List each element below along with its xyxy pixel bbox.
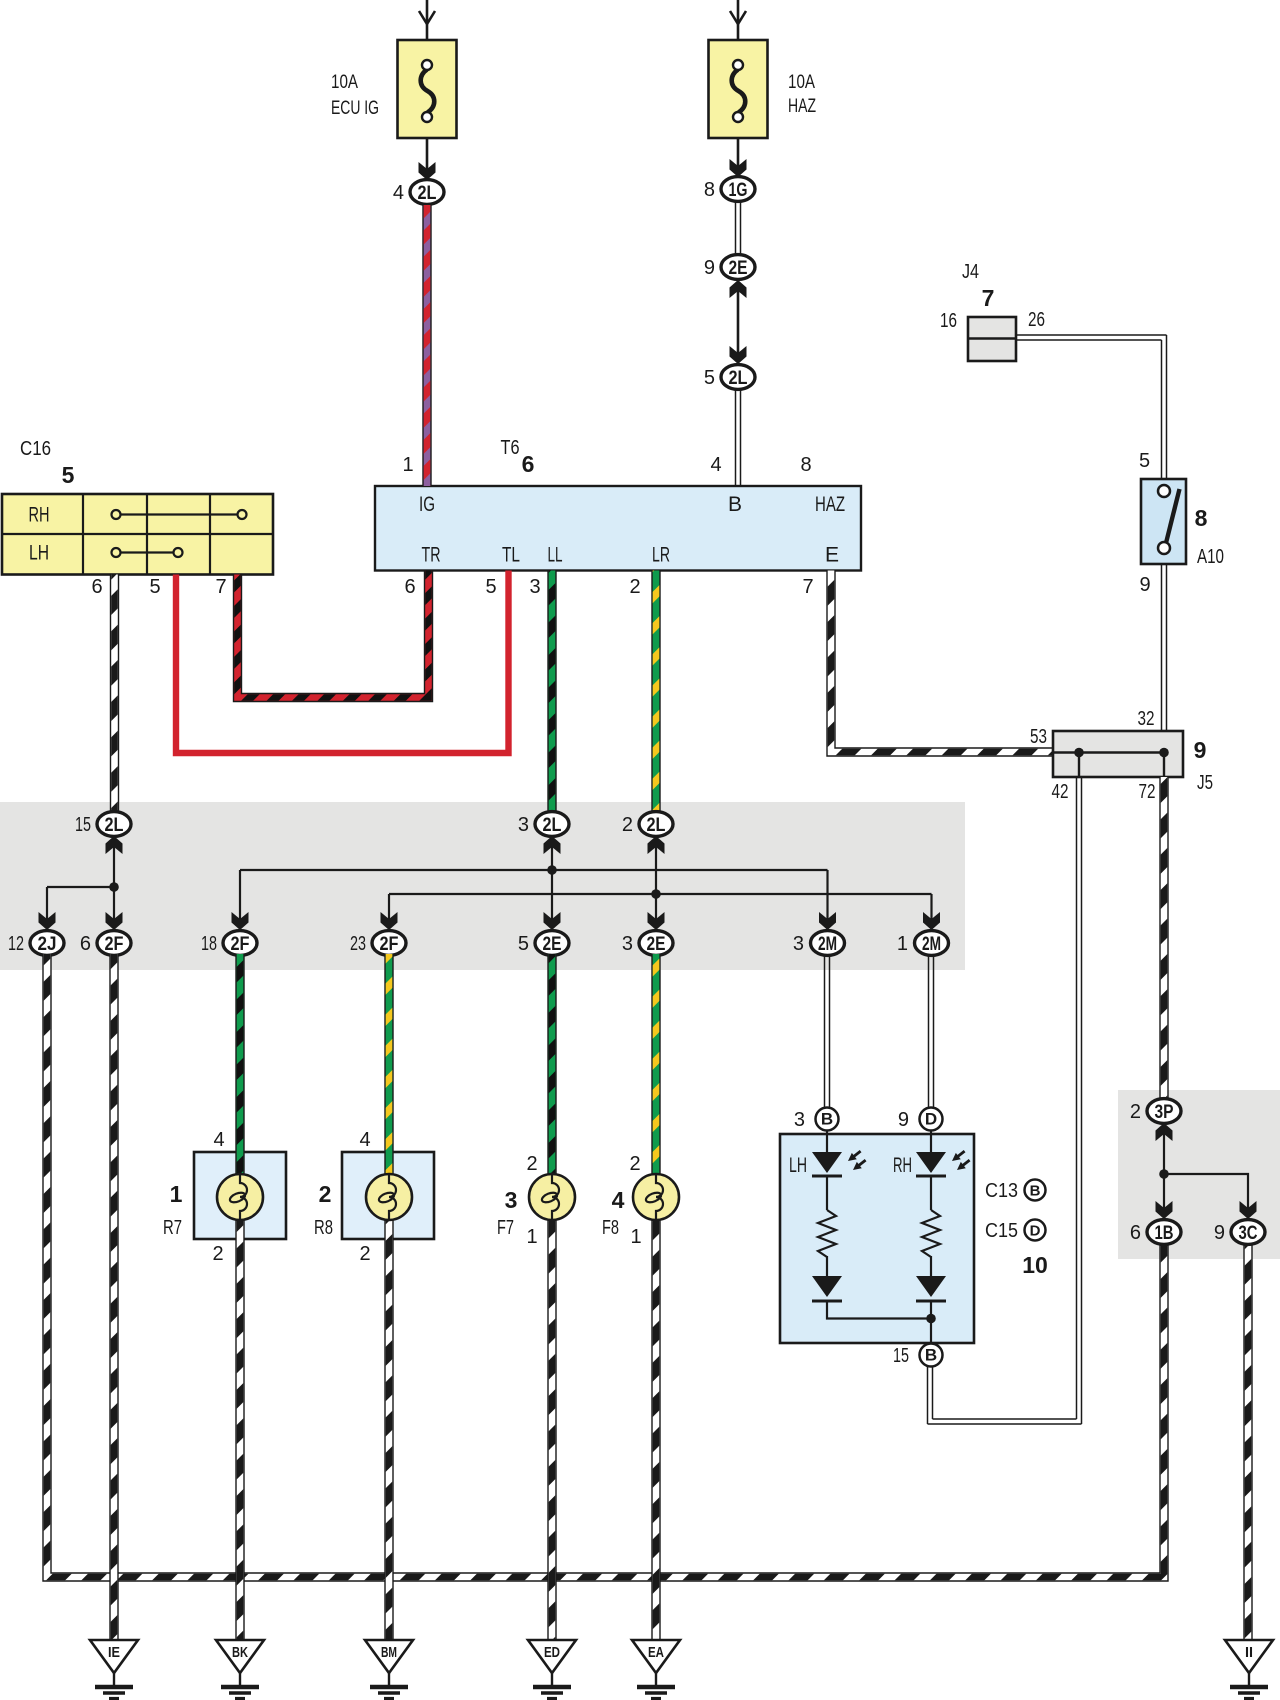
connector oval 3C (pin 9) xyxy=(1231,1220,1265,1245)
arrow into 1G pin 8 xyxy=(730,159,747,177)
svg-text:2: 2 xyxy=(629,576,640,598)
svg-text:RH: RH xyxy=(29,504,50,527)
svg-text:2L: 2L xyxy=(105,815,124,836)
svg-text:B: B xyxy=(728,493,742,516)
arrow up into 2L pin2 xyxy=(648,836,665,854)
svg-text:7: 7 xyxy=(982,285,995,311)
svg-text:IG: IG xyxy=(419,493,435,516)
diode RH xyxy=(916,1276,946,1301)
wire black-white: lamp F8 to ground EA xyxy=(651,1220,660,1640)
svg-text:3: 3 xyxy=(622,933,633,955)
svg-text:5: 5 xyxy=(518,933,529,955)
svg-text:J4: J4 xyxy=(962,261,979,283)
bulb F8 xyxy=(633,1174,679,1220)
wire diode LH to node B15 xyxy=(827,1301,931,1319)
connector oval 2E (pin 9) xyxy=(721,255,755,280)
terminal circle B (pin 3) xyxy=(816,1108,839,1131)
arrow into band oval x=389 xyxy=(381,912,398,930)
svg-text:4: 4 xyxy=(710,454,721,476)
diode LH xyxy=(812,1276,842,1301)
svg-text:16: 16 xyxy=(940,310,957,332)
svg-text:6: 6 xyxy=(522,451,535,477)
arrow into band oval x=827.5 xyxy=(819,912,836,930)
svg-text:ED: ED xyxy=(544,1644,560,1661)
wire black-white: C16 pin6 to 2L pin15 xyxy=(110,575,119,815)
svg-text:2L: 2L xyxy=(543,815,562,836)
svg-text:D: D xyxy=(1030,1223,1041,1240)
junction dot LL branch xyxy=(547,865,557,875)
svg-text:BK: BK xyxy=(232,1644,248,1661)
connector oval 2M (pin 1) xyxy=(915,931,949,956)
svg-text:4: 4 xyxy=(612,1187,625,1213)
svg-text:2F: 2F xyxy=(231,934,250,955)
wire 2L15 to 2F6 xyxy=(113,836,115,930)
svg-text:C15: C15 xyxy=(985,1220,1018,1242)
svg-text:TL: TL xyxy=(502,544,520,567)
wire black-white: lamp F7 to ground ED xyxy=(547,1220,556,1640)
connector oval 2F (pin 6) xyxy=(97,931,131,956)
wire green-yellow: 2E3 to lamp F8 xyxy=(651,954,660,1176)
wire branch line LR xyxy=(389,893,932,895)
connector oval 2F (pin 18) xyxy=(223,931,257,956)
svg-text:J5: J5 xyxy=(1197,772,1213,794)
wire branch to 3C xyxy=(1164,1174,1248,1219)
svg-text:15: 15 xyxy=(75,814,91,836)
arrow up into 3P xyxy=(1156,1123,1173,1141)
svg-text:2M: 2M xyxy=(818,934,837,955)
combination meter LED unit (10) box xyxy=(780,1134,974,1343)
svg-text:3: 3 xyxy=(505,1187,518,1213)
wire 2E to 2L xyxy=(737,280,740,364)
svg-text:1: 1 xyxy=(526,1226,537,1248)
wire violet-red: 2L pin4 to T6 IG xyxy=(422,205,431,486)
arrow into band oval x=931.5 xyxy=(923,912,940,930)
wire B to LED LH xyxy=(826,1131,828,1152)
svg-text:T6: T6 xyxy=(501,437,520,459)
svg-text:HAZ: HAZ xyxy=(788,96,816,117)
svg-text:1: 1 xyxy=(897,933,908,955)
svg-text:1: 1 xyxy=(402,454,413,476)
svg-text:B: B xyxy=(925,1346,937,1365)
arrow into band oval x=240 xyxy=(232,912,249,930)
svg-text:5: 5 xyxy=(1139,450,1150,472)
wire LED RH to resistor RH xyxy=(930,1176,932,1210)
wire red-black: C16 pin7 to T6 TR xyxy=(238,571,429,698)
arrow into 2L pin 4 xyxy=(419,162,436,180)
svg-text:1: 1 xyxy=(170,1181,183,1207)
svg-text:2M: 2M xyxy=(922,934,941,955)
connector code circle B (C13) xyxy=(1025,1180,1046,1201)
junction dot LR branch xyxy=(651,889,661,899)
svg-text:10: 10 xyxy=(1022,1252,1048,1278)
junction block band (relay block) xyxy=(0,802,965,970)
svg-text:2L: 2L xyxy=(729,368,748,389)
connector oval 2E (pin 3) xyxy=(639,931,673,956)
svg-text:6: 6 xyxy=(404,576,415,598)
arrow into band oval x=114 xyxy=(106,912,123,930)
svg-text:2: 2 xyxy=(212,1243,223,1265)
svg-text:5: 5 xyxy=(149,576,160,598)
svg-text:1G: 1G xyxy=(729,180,748,201)
svg-text:7: 7 xyxy=(802,576,813,598)
svg-text:5: 5 xyxy=(704,367,715,389)
svg-text:2E: 2E xyxy=(647,934,666,955)
svg-text:10A: 10A xyxy=(788,72,815,93)
svg-text:2: 2 xyxy=(1130,1101,1141,1123)
arrow into band oval x=656 xyxy=(648,912,665,930)
wire black-white: lamp R8 to ground BM xyxy=(384,1220,393,1640)
svg-text:BM: BM xyxy=(381,1644,397,1661)
terminal circle B (pin 15) xyxy=(920,1344,943,1367)
wire J4 pin 26 to switch A10 (double line) xyxy=(1016,335,1167,480)
switch C16 (turn signal switch 5) xyxy=(2,494,273,575)
svg-text:5: 5 xyxy=(62,462,75,488)
wire green-yellow: 2F23 to lamp R8 xyxy=(384,954,393,1176)
ground II xyxy=(1225,1640,1273,1699)
junction dot J5 pin72 node xyxy=(1159,748,1169,758)
arrow into 1B xyxy=(1156,1201,1173,1219)
terminal circle D (pin 9) xyxy=(920,1108,943,1131)
junction dot J5 pin42 node xyxy=(1074,748,1084,758)
junction dot LED unit common xyxy=(926,1314,936,1324)
svg-text:3: 3 xyxy=(794,1109,805,1131)
ground EA xyxy=(632,1640,680,1699)
LED indicator LH xyxy=(812,1148,868,1176)
junction block band 2 (right) xyxy=(1118,1090,1280,1259)
svg-text:3: 3 xyxy=(529,576,540,598)
wire LED LH to resistor LH xyxy=(826,1176,828,1210)
wire 2M1 to LED unit pin9 D (double line) xyxy=(929,954,934,1110)
ground IE xyxy=(90,1640,138,1699)
bulb R7 xyxy=(217,1174,263,1220)
svg-text:2: 2 xyxy=(622,814,633,836)
svg-text:B: B xyxy=(821,1110,833,1129)
svg-text:TR: TR xyxy=(422,544,441,567)
wire 1G to 2E (double line) xyxy=(736,201,741,255)
arrow down into 2L pin 5 xyxy=(730,346,747,364)
svg-text:A10: A10 xyxy=(1197,546,1224,568)
wire 2L to T6 pin B (double line) xyxy=(736,389,741,487)
svg-text:8: 8 xyxy=(1195,505,1208,531)
connector oval 2L (pin 15) xyxy=(97,812,131,837)
svg-text:F7: F7 xyxy=(497,1217,514,1239)
svg-text:R7: R7 xyxy=(163,1217,182,1239)
wire branch line LL xyxy=(240,869,828,871)
rear turn signal lamp R7 (1) box xyxy=(194,1152,286,1239)
ground ED xyxy=(528,1640,576,1699)
svg-text:RH: RH xyxy=(893,1154,912,1177)
wire J5 pin42 to LED unit pin15 B (double line) xyxy=(928,777,1082,1424)
svg-text:6: 6 xyxy=(91,576,102,598)
svg-text:6: 6 xyxy=(1130,1222,1141,1244)
arrow up into 2L pin15 xyxy=(106,836,123,854)
wire black-white: T6 E to J5 pin 53 xyxy=(831,571,1053,753)
connector oval 2F (pin 23) xyxy=(372,931,406,956)
wire 2M3 to LED unit pin3 B (double line) xyxy=(825,954,830,1110)
svg-text:3: 3 xyxy=(793,933,804,955)
fuse HAZ 10A xyxy=(709,40,768,138)
svg-text:E: E xyxy=(825,544,839,567)
wire green-yellow: T6 LR to 2L pin2 xyxy=(651,571,660,815)
svg-text:F8: F8 xyxy=(602,1217,619,1239)
svg-text:3P: 3P xyxy=(1155,1102,1174,1123)
wire 2L2 to 2E3 xyxy=(655,836,657,930)
svg-text:LL: LL xyxy=(548,544,563,567)
switch A10 (hazard switch 8) xyxy=(1141,479,1186,564)
wire green-black: 2E5 to lamp F7 xyxy=(547,954,556,1176)
svg-text:2: 2 xyxy=(359,1243,370,1265)
svg-text:II: II xyxy=(1245,1644,1253,1661)
svg-text:2: 2 xyxy=(629,1153,640,1175)
resistor LH xyxy=(818,1210,836,1257)
connector oval 1G (pin 8) xyxy=(721,177,755,202)
svg-text:5: 5 xyxy=(485,576,496,598)
connector oval 3P (pin 2) xyxy=(1147,1099,1181,1124)
wire black-white: lamp R7 to ground BK xyxy=(235,1220,244,1640)
bulb R8 xyxy=(366,1174,412,1220)
svg-text:9: 9 xyxy=(1214,1222,1225,1244)
wire red: C16 pin5 to T6 TL xyxy=(176,571,509,754)
wire diode RH to pin15 B xyxy=(930,1301,932,1344)
svg-text:8: 8 xyxy=(800,454,811,476)
wire resistor RH to diode RH xyxy=(930,1256,932,1276)
svg-text:2L: 2L xyxy=(418,183,437,204)
arrow into band oval x=47 xyxy=(39,912,56,930)
svg-text:ECU IG: ECU IG xyxy=(331,98,379,119)
connector oval 2L (pin 2) xyxy=(639,812,673,837)
svg-text:1B: 1B xyxy=(1155,1223,1174,1244)
svg-text:2E: 2E xyxy=(543,934,562,955)
wire down to 2F23 xyxy=(388,894,390,930)
svg-text:2J: 2J xyxy=(38,934,57,955)
connector oval 2J (pin 12) xyxy=(30,931,64,956)
ground BK xyxy=(216,1640,264,1699)
connector code circle D (C15) xyxy=(1025,1220,1046,1241)
svg-text:9: 9 xyxy=(898,1109,909,1131)
wire D to LED RH xyxy=(930,1131,932,1152)
wire green-black: T6 LL to 2L pin3 xyxy=(547,571,556,815)
svg-text:1: 1 xyxy=(630,1226,641,1248)
svg-text:B: B xyxy=(1030,1183,1041,1200)
arrow up into 2L pin3 xyxy=(544,836,561,854)
junction dot 3P branch xyxy=(1159,1169,1169,1179)
svg-text:C13: C13 xyxy=(985,1180,1018,1202)
wire black-white: 2J12 to 1B6 (long run) xyxy=(47,954,1164,1577)
wire black-white: 3C9 to ground II xyxy=(1243,1244,1252,1640)
svg-text:2F: 2F xyxy=(105,934,124,955)
svg-text:7: 7 xyxy=(215,576,226,598)
wire 2L3 to 2E5 xyxy=(551,836,553,930)
svg-text:IE: IE xyxy=(108,1644,120,1661)
wire 3P to 1B xyxy=(1163,1122,1165,1219)
wire down to 2J12 xyxy=(46,887,48,930)
ground BM xyxy=(365,1640,413,1699)
svg-text:4: 4 xyxy=(213,1129,224,1151)
LED indicator RH xyxy=(916,1148,972,1176)
resistor RH xyxy=(922,1210,940,1257)
wire A10 pin 9 to J5 pin 32 (double line) xyxy=(1162,564,1167,752)
svg-text:R8: R8 xyxy=(314,1217,333,1239)
svg-text:LH: LH xyxy=(29,542,49,565)
connector oval 2L (pin 4) xyxy=(410,180,444,205)
wire down to 2F18 xyxy=(239,870,241,930)
svg-text:42: 42 xyxy=(1052,781,1069,803)
connector oval 2M (pin 3) xyxy=(811,931,845,956)
svg-text:18: 18 xyxy=(201,933,217,955)
svg-text:2: 2 xyxy=(319,1181,332,1207)
connector J4 (7) xyxy=(968,317,1016,361)
svg-text:15: 15 xyxy=(893,1345,909,1367)
arrow into band oval x=552 xyxy=(544,912,561,930)
svg-text:LR: LR xyxy=(652,544,670,567)
svg-text:HAZ: HAZ xyxy=(815,493,845,516)
svg-text:53: 53 xyxy=(1030,726,1047,748)
svg-text:10A: 10A xyxy=(331,72,358,93)
flasher relay T6 (6) xyxy=(375,486,861,571)
junction connector J5 (9) xyxy=(1053,731,1183,777)
wire down to 2M3 xyxy=(826,870,828,930)
bulb F7 xyxy=(529,1174,575,1220)
svg-text:2L: 2L xyxy=(647,815,666,836)
connector oval 2L (pin 5) xyxy=(721,365,755,390)
svg-text:32: 32 xyxy=(1138,708,1155,730)
svg-text:23: 23 xyxy=(350,933,366,955)
connector oval 2L (pin 3) xyxy=(535,812,569,837)
wire feed to fuse HAZ xyxy=(730,0,746,167)
svg-text:26: 26 xyxy=(1028,309,1045,331)
wire resistor LH to diode LH xyxy=(826,1256,828,1276)
fuse ECU IG 10A xyxy=(398,40,457,138)
wire black-white: J5 pin72 to 3P pin2 xyxy=(1159,777,1168,1100)
junction dot band left xyxy=(109,882,119,892)
svg-text:72: 72 xyxy=(1139,781,1156,803)
svg-text:EA: EA xyxy=(648,1644,664,1661)
wire black-white: 2F6 to ground IE xyxy=(109,954,118,1640)
wire green-black: 2F18 to lamp R7 xyxy=(235,954,244,1176)
svg-text:3: 3 xyxy=(518,814,529,836)
arrow up into 2E xyxy=(730,280,747,298)
svg-text:LH: LH xyxy=(789,1154,807,1177)
svg-text:8: 8 xyxy=(704,179,715,201)
svg-text:6: 6 xyxy=(80,933,91,955)
rear turn signal lamp R8 (2) box xyxy=(342,1152,434,1239)
svg-text:4: 4 xyxy=(393,182,404,204)
svg-text:2: 2 xyxy=(526,1153,537,1175)
arrow into 3C xyxy=(1240,1201,1257,1219)
wire down to 2M1 xyxy=(930,894,932,930)
svg-text:9: 9 xyxy=(704,257,715,279)
svg-text:9: 9 xyxy=(1194,737,1207,763)
svg-text:9: 9 xyxy=(1139,574,1150,596)
svg-text:3C: 3C xyxy=(1239,1223,1258,1244)
svg-text:2F: 2F xyxy=(380,934,399,955)
wire branch to 2J12 xyxy=(47,886,114,888)
svg-text:C16: C16 xyxy=(20,438,51,460)
connector oval 1B (pin 6) xyxy=(1147,1220,1181,1245)
svg-text:4: 4 xyxy=(359,1129,370,1151)
wire feed to fuse ECU IG xyxy=(419,0,435,170)
svg-text:2E: 2E xyxy=(729,258,748,279)
svg-text:12: 12 xyxy=(8,933,24,955)
connector oval 2E (pin 5) xyxy=(535,931,569,956)
svg-text:D: D xyxy=(925,1110,937,1129)
